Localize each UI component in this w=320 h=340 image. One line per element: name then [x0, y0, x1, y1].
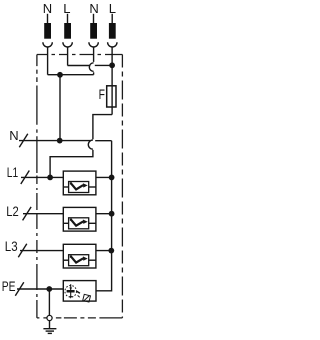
terminal 1 (N) — [43, 14, 60, 75]
L2 row slash — [23, 207, 32, 221]
wire PE row — [17, 288, 63, 290]
PE row slash — [15, 282, 23, 296]
wire N rail down — [59, 75, 61, 141]
wire L2 module to rail — [96, 213, 112, 215]
terminal 2 (L) — [63, 14, 72, 66]
terminal 3 (N) — [89, 14, 98, 62]
wire L1 row — [21, 176, 63, 178]
wire L3 module to rail — [96, 250, 112, 252]
N rail right side down — [96, 141, 112, 291]
node N row junction — [57, 138, 63, 144]
wire PE down to earth — [48, 289, 50, 315]
svg-text:N: N — [9, 128, 18, 143]
node rail L3 junction — [108, 248, 114, 254]
gas discharge tube symbol — [65, 284, 80, 298]
wire N row — [19, 140, 112, 142]
wire L2 row — [23, 213, 63, 215]
svg-text:PE: PE — [2, 278, 16, 294]
enclosure dashed border — [37, 55, 123, 318]
wire L feed down to fuse — [111, 65, 113, 114]
node rail L1 junction — [109, 175, 115, 181]
wire L out to L in (wire A) — [68, 64, 113, 66]
svg-text:L1: L1 — [7, 165, 18, 180]
wire to ground — [49, 321, 51, 329]
SPD module L2 — [63, 207, 96, 231]
spark gap module (N-PE) — [63, 281, 96, 302]
wire L3 row — [20, 250, 63, 252]
disconnector indicator symbol — [83, 294, 91, 302]
SPD module L1 — [63, 171, 96, 195]
PE through-panel terminal circle — [47, 315, 52, 320]
svg-text:F: F — [99, 86, 105, 102]
node N-out junction — [57, 72, 63, 78]
svg-text:L3: L3 — [5, 238, 18, 254]
L1 row slash — [21, 171, 30, 185]
node L1 feed junction — [47, 175, 53, 181]
wire fuse output — [50, 115, 112, 178]
svg-text:N: N — [89, 1, 98, 16]
svg-text:N: N — [43, 1, 52, 16]
ground symbol — [43, 329, 56, 334]
node L-in junction — [109, 62, 115, 68]
wire L1 module to rail — [96, 176, 112, 178]
SPD module L3 — [63, 244, 96, 268]
node PE junction — [46, 286, 52, 292]
svg-text:L: L — [109, 1, 116, 16]
node rail L2 junction — [109, 211, 115, 217]
svg-text:L: L — [63, 1, 70, 16]
terminal 4 (L) — [108, 14, 117, 66]
L3 row slash — [18, 244, 27, 258]
svg-text:L2: L2 — [6, 203, 19, 219]
N row slash — [19, 134, 28, 148]
hop of N terminal stem over wire A — [60, 63, 94, 75]
fuse F — [107, 86, 116, 107]
